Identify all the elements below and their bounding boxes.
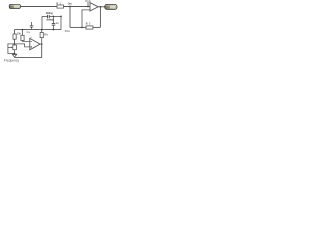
op-amp U2 minus mark bbox=[31, 40, 32, 42]
op-amp U2 bbox=[30, 38, 40, 49]
svg-text:1u: 1u bbox=[26, 31, 30, 34]
wire cap branch vertical bbox=[69, 7, 71, 28]
input source V1 (pill block) bbox=[9, 4, 20, 8]
capacitor C2 (shunt) bbox=[52, 16, 54, 23]
wire left column bbox=[14, 30, 16, 34]
wire inverting input bbox=[82, 10, 90, 28]
wire feedback to corner bbox=[70, 26, 86, 28]
potentiometer body bbox=[13, 45, 17, 50]
wire op2 output bbox=[40, 43, 42, 45]
svg-text:Out: Out bbox=[68, 2, 72, 6]
resistor R1 bbox=[57, 5, 64, 8]
capacitor C1 (series) bbox=[48, 15, 50, 18]
junction mid rail right bbox=[60, 16, 61, 17]
resistor R5 bbox=[40, 33, 43, 38]
wire col2 bbox=[21, 30, 23, 36]
op-amp U2 plus mark bbox=[30, 46, 32, 48]
svg-text:R2: R2 bbox=[86, 23, 91, 26]
wire feedback bottom bbox=[93, 26, 101, 28]
wire pot to op2 non-inverting bbox=[15, 44, 29, 47]
output probe (pill block) bbox=[105, 4, 117, 9]
svg-text:Frequency: Frequency bbox=[4, 58, 20, 62]
wire stub op1 top bbox=[87, 2, 89, 7]
label near U2 top bbox=[30, 36, 32, 38]
svg-text:R1: R1 bbox=[56, 1, 61, 5]
wire main top rail bbox=[20, 6, 90, 8]
svg-text:Rolling: Rolling bbox=[46, 11, 54, 15]
resistor R4 bbox=[21, 35, 24, 40]
junction op2 output bbox=[41, 43, 42, 44]
resistor R2 bbox=[86, 26, 93, 29]
wire op1 output bbox=[98, 6, 104, 8]
ground cap branch bbox=[31, 22, 33, 26]
wire op2 up branch bbox=[41, 38, 43, 45]
junction pot top bbox=[14, 43, 15, 44]
wire middle rail top bbox=[42, 16, 61, 29]
ground symbol bbox=[12, 54, 16, 57]
pot wiper arrow bbox=[8, 46, 12, 48]
wire to op2 inverting bbox=[22, 40, 29, 43]
junction dots bottom rail bbox=[22, 29, 23, 30]
svg-text:Rb: Rb bbox=[44, 33, 48, 36]
wire middle rail bottom bbox=[15, 29, 62, 31]
junction pot bottom bbox=[14, 53, 15, 54]
wiper loop wire bbox=[8, 44, 15, 54]
wire op2 down branch to pot bottom bbox=[15, 44, 42, 57]
resistor R3 bbox=[13, 34, 16, 39]
junction output bbox=[100, 6, 101, 7]
op-amp U1 bbox=[90, 3, 98, 11]
junction mid rail bbox=[53, 16, 54, 17]
wire pot bottom bbox=[14, 50, 16, 55]
junction feedback bbox=[81, 27, 82, 28]
wire feedback right vertical bbox=[99, 7, 101, 28]
junction main/cap bbox=[69, 6, 70, 7]
junction stub bbox=[87, 6, 88, 7]
svg-text:10n: 10n bbox=[65, 29, 71, 33]
